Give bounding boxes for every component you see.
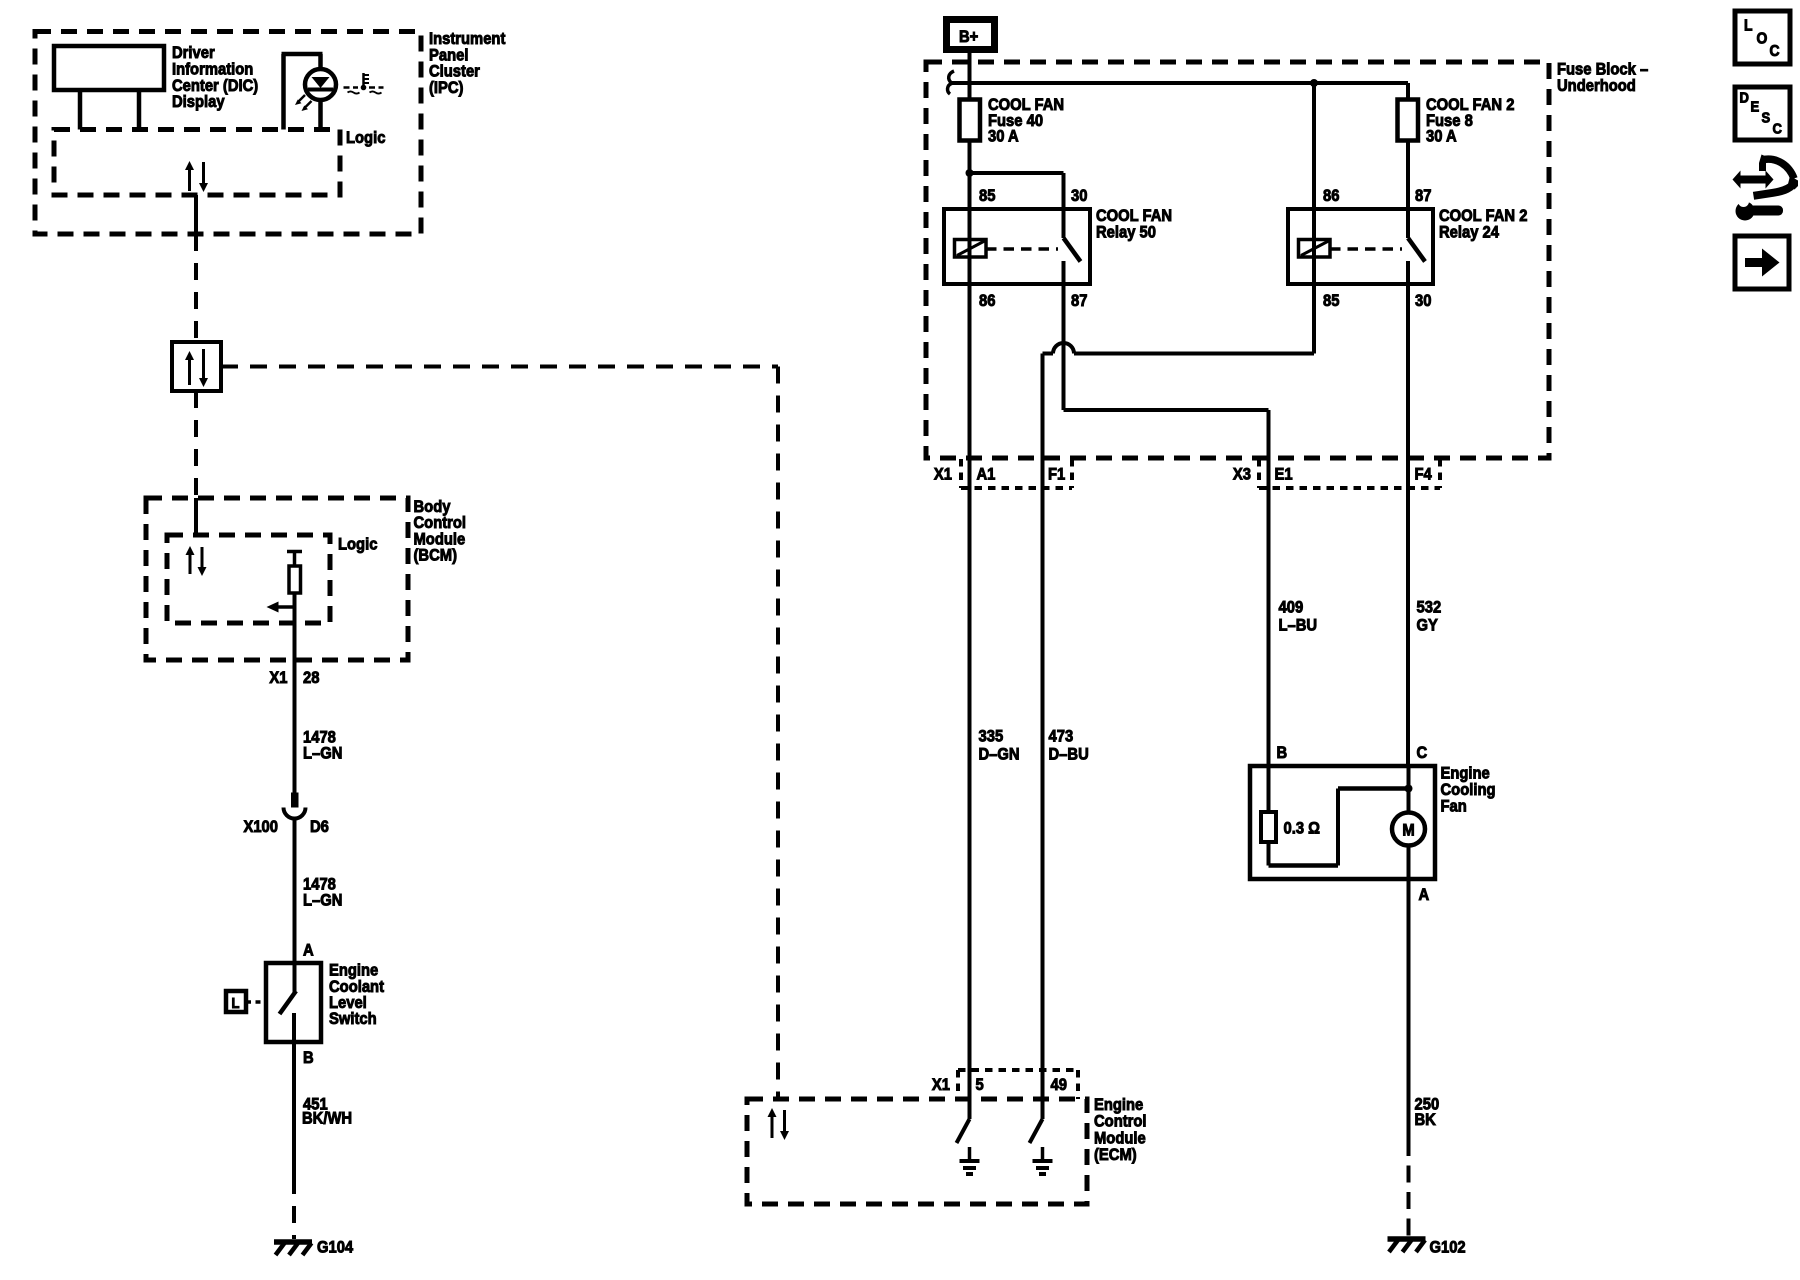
bus bar with continuation squiggle: [948, 71, 954, 94]
svg-text:(ECM): (ECM): [1094, 1146, 1137, 1164]
wire: relay24 85 to ECM pin 49 (with hop): [1312, 284, 1316, 354]
svg-text:F1: F1: [1048, 466, 1065, 484]
serial data link box: [172, 342, 221, 391]
svg-text:Underhood: Underhood: [1557, 77, 1636, 95]
svg-text:BK/WH: BK/WH: [302, 1109, 352, 1127]
svg-text:L: L: [1744, 17, 1752, 35]
svg-text:30 A: 30 A: [988, 128, 1019, 146]
wire: serial data to ECM (dashed): [221, 365, 778, 369]
level sensor L box: [226, 991, 246, 1012]
svg-text:L–BU: L–BU: [1279, 617, 1318, 635]
ground G104: [274, 1239, 312, 1245]
svg-text:85: 85: [1323, 292, 1340, 310]
svg-text:X1: X1: [269, 669, 287, 687]
svg-text:85: 85: [979, 187, 996, 205]
relay 50 switch: [1064, 238, 1081, 262]
svg-text:X3: X3: [1233, 466, 1251, 484]
svg-text:Cooling: Cooling: [1441, 781, 1496, 799]
svg-text:X100: X100: [243, 818, 278, 836]
pull-up supply bar: [287, 550, 302, 554]
wire label 1478 L-GN (lower): [293, 819, 297, 963]
svg-text:F4: F4: [1415, 466, 1432, 484]
svg-text:Module: Module: [1094, 1129, 1146, 1147]
node: fuse40/relay50: [966, 169, 974, 177]
svg-text:L: L: [232, 994, 240, 1011]
svg-text:5: 5: [976, 1076, 984, 1094]
svg-text:49: 49: [1051, 1076, 1068, 1094]
node: resistor joins motor feed: [1405, 785, 1413, 793]
module box: Engine Control Module (ECM): [747, 1099, 1087, 1204]
svg-text:O: O: [1757, 30, 1768, 48]
svg-text:C: C: [1417, 744, 1428, 762]
svg-text:G102: G102: [1430, 1239, 1466, 1257]
svg-text:532: 532: [1417, 599, 1442, 617]
switch: Engine Coolant Level Switch: [266, 963, 321, 1042]
motor M: [1407, 766, 1411, 813]
icon: serial data / tools: [1733, 171, 1774, 189]
serial data arrows (BCM): [189, 553, 192, 574]
svg-text:Display: Display: [172, 93, 225, 111]
module box: Body Control Module (BCM): [146, 498, 408, 660]
ground G102: [1388, 1236, 1426, 1242]
wire: B+ into fuse block: [968, 53, 972, 100]
svg-text:E: E: [1751, 98, 1760, 115]
svg-text:Fan: Fan: [1441, 798, 1467, 816]
svg-text:B+: B+: [959, 28, 978, 46]
wire: serial data to BCM (dashed): [194, 391, 198, 498]
svg-text:86: 86: [979, 292, 996, 310]
BCM logic box: [167, 535, 330, 623]
svg-text:L–GN: L–GN: [303, 891, 342, 909]
svg-text:Logic: Logic: [346, 129, 386, 147]
fuse COOL FAN 2 Fuse 8 30 A: [1406, 83, 1410, 100]
svg-text:Switch: Switch: [329, 1010, 377, 1028]
svg-text:B: B: [1277, 744, 1288, 762]
svg-text:L–GN: L–GN: [303, 744, 342, 762]
fuse block connectors X1 / X3: [959, 459, 963, 488]
ECM driver pin 5 to ground: [957, 1119, 970, 1143]
relay 24 switch: [1408, 238, 1425, 262]
svg-text:Relay 24: Relay 24: [1439, 224, 1499, 242]
svg-text:Relay 50: Relay 50: [1096, 224, 1156, 242]
svg-text:E1: E1: [1275, 466, 1293, 484]
icon: DESC box: [1735, 87, 1790, 140]
resistor 0.3 ohm: [1267, 766, 1271, 812]
wire: relay24 30 to fan C: [1406, 284, 1410, 766]
wire: bus to relay 24 coil: [1312, 83, 1316, 284]
IPC logic box: [54, 130, 340, 196]
svg-text:M: M: [1402, 822, 1414, 840]
svg-text:B: B: [303, 1049, 314, 1067]
signal tap arrow: [277, 605, 295, 609]
indicator lamp (coolant level telltale): [281, 54, 286, 130]
svg-text:A1: A1: [977, 466, 996, 484]
fuse COOL FAN Fuse 40 30 A: [960, 100, 981, 141]
svg-text:(IPC): (IPC): [429, 79, 463, 97]
wire into BCM: [194, 498, 198, 535]
svg-text:D6: D6: [310, 818, 329, 836]
svg-text:Engine: Engine: [1441, 765, 1490, 783]
svg-text:G104: G104: [317, 1239, 353, 1257]
wire: fuse 40 to relay 50: [968, 141, 972, 285]
svg-text:335: 335: [979, 728, 1004, 746]
svg-text:A: A: [1419, 886, 1430, 904]
svg-text:Control: Control: [1094, 1113, 1147, 1131]
coolant level icon: [362, 73, 365, 86]
svg-text:S: S: [1762, 109, 1771, 126]
icon: LOC box: [1735, 11, 1790, 64]
svg-text:Engine: Engine: [1094, 1096, 1143, 1114]
wire: fuse 8 to relay 24 switch: [1406, 141, 1410, 239]
icon: forward arrow box: [1735, 236, 1789, 289]
svg-text:GY: GY: [1417, 617, 1439, 635]
power feed B+: [947, 20, 995, 50]
DIC display box: [54, 46, 164, 90]
relay: COOL FAN 2 Relay 24: [1288, 209, 1433, 284]
wire: BCM output pin: [293, 593, 297, 793]
svg-text:30: 30: [1415, 292, 1432, 310]
serial data arrows (ECM): [771, 1115, 774, 1138]
svg-text:30 A: 30 A: [1426, 128, 1457, 146]
ECM driver pin 49 to ground: [1030, 1119, 1043, 1143]
svg-text:0.3 Ω: 0.3 Ω: [1284, 820, 1321, 838]
svg-text:D–GN: D–GN: [979, 746, 1020, 764]
relay: COOL FAN Relay 50: [944, 209, 1090, 284]
svg-text:D: D: [1740, 89, 1749, 106]
svg-text:Logic: Logic: [338, 536, 378, 554]
svg-text:86: 86: [1323, 187, 1340, 205]
svg-text:C: C: [1770, 42, 1780, 60]
wire 451 BK/WH: [292, 1042, 296, 1177]
relay 50 coil: [955, 240, 987, 258]
relay 24 coil: [1299, 240, 1331, 258]
lamp emission arrows: [298, 95, 306, 103]
wire: DIC display legs: [78, 90, 83, 130]
resistor (BCM pull-up): [289, 566, 301, 593]
wire: relay50 87 to fan B: [1062, 284, 1066, 410]
serial data arrows (IPC): [188, 168, 191, 191]
svg-text:30: 30: [1071, 187, 1088, 205]
wire: relay50 86 to ECM pin 5: [968, 284, 972, 1119]
svg-text:87: 87: [1071, 292, 1088, 310]
module box: Instrument Panel Cluster (IPC): [35, 32, 421, 235]
svg-text:A: A: [303, 942, 314, 960]
module box: Fuse Block - Underhood: [926, 62, 1549, 458]
svg-text:X1: X1: [934, 466, 952, 484]
svg-text:C: C: [1773, 120, 1782, 137]
svg-text:28: 28: [303, 669, 320, 687]
svg-text:473: 473: [1049, 728, 1074, 746]
node: bus to relay 24 coil: [1310, 79, 1318, 87]
connector X100 D6: [291, 793, 299, 808]
svg-text:X1: X1: [932, 1076, 950, 1094]
svg-text:D–BU: D–BU: [1049, 746, 1089, 764]
svg-text:BK: BK: [1415, 1111, 1437, 1129]
svg-text:(BCM): (BCM): [414, 547, 458, 565]
svg-text:409: 409: [1279, 599, 1304, 617]
svg-text:87: 87: [1415, 187, 1432, 205]
wire: IPC logic to serial link: [194, 195, 198, 234]
ECM connector X1: [958, 1068, 1078, 1072]
